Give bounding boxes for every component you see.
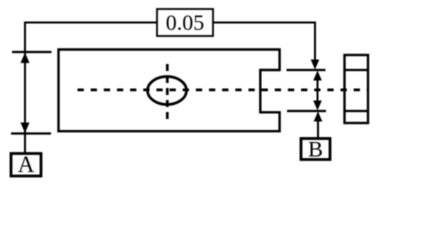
end view upper edge line	[345, 69, 369, 71]
double arrow lower head	[313, 101, 322, 111]
right top extension tick	[287, 69, 326, 71]
left bottom extension tick	[11, 132, 51, 134]
svg-text:B: B	[308, 137, 323, 162]
arrowhead up at bottom tick from datum B	[314, 112, 323, 122]
left dimension line	[24, 52, 26, 134]
svg-text:A: A	[18, 152, 35, 177]
right bottom extension tick	[287, 110, 326, 112]
leader wire left (frame to left dimension)	[25, 23, 157, 53]
end view rectangle	[345, 55, 369, 123]
arrowhead down at left bottom tick	[21, 123, 30, 134]
leader wire right (frame to datum B zone)	[213, 23, 315, 63]
datum A stem	[24, 134, 26, 155]
datum A box	[11, 154, 41, 177]
left top extension tick	[12, 51, 52, 53]
svg-text:0.05: 0.05	[166, 10, 205, 35]
double arrow upper head	[313, 71, 322, 81]
hole (ellipse)	[148, 77, 187, 105]
horizontal centerline	[78, 89, 368, 92]
arrowhead up at left top tick	[21, 53, 30, 64]
datum B box	[301, 139, 330, 160]
feature control frame box 0.05	[157, 9, 213, 36]
vertical centerline through hole	[166, 64, 169, 120]
end view lower edge line	[345, 110, 369, 112]
double arrow line between ticks	[317, 74, 319, 107]
arrowhead down at right top tick	[311, 60, 320, 70]
part outline (stepped shaft side view)	[59, 50, 280, 132]
datum B stem	[317, 113, 319, 139]
